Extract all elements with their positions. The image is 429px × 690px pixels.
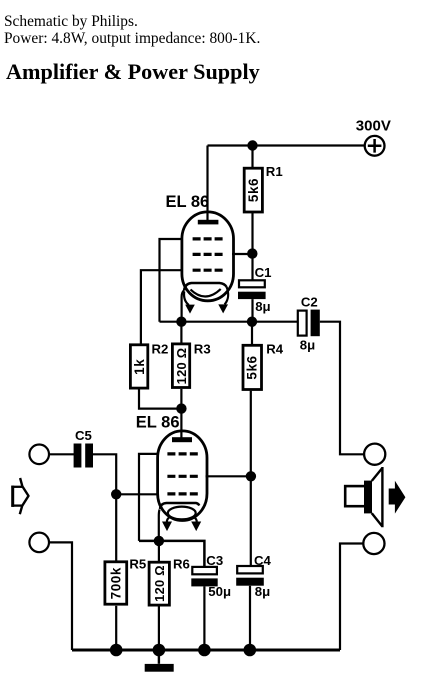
tube V2 grid g3 bbox=[167, 452, 197, 455]
node ground R5 bbox=[110, 644, 123, 657]
wire R1 to C1 bbox=[251, 213, 253, 281]
node ground C4 bbox=[244, 644, 257, 657]
svg-text:EL 86: EL 86 bbox=[136, 414, 180, 432]
svg-text:120 Ω: 120 Ω bbox=[152, 565, 167, 602]
tube V2 heater lead right arrow bbox=[191, 517, 201, 531]
tube V1 grid g3 bbox=[193, 237, 223, 240]
wire C2 to output top bbox=[320, 322, 365, 455]
input arrow bbox=[11, 478, 28, 514]
node anode2 junction bbox=[176, 403, 186, 413]
wire C4 bottom lead bbox=[249, 586, 251, 650]
terminal output top bbox=[364, 444, 385, 465]
caption line 1 bbox=[4, 14, 138, 31]
svg-text:5k6: 5k6 bbox=[246, 178, 261, 202]
tube V2 EL86 envelope bbox=[158, 431, 207, 521]
tube V2 grid g2 bbox=[167, 475, 197, 478]
node g2 tube2 junction bbox=[246, 471, 256, 481]
speaker bbox=[345, 467, 382, 527]
wire g2 tube2 lead bbox=[206, 475, 251, 477]
node g2 R1 junction bbox=[247, 248, 257, 258]
svg-text:C3: C3 bbox=[206, 553, 223, 568]
wire g3 tube1 to node rail bbox=[160, 239, 184, 322]
svg-text:8μ: 8μ bbox=[255, 299, 270, 314]
wire R1 top lead bbox=[251, 146, 253, 169]
resistor R1 bbox=[244, 168, 262, 212]
wire R5 bottom lead bbox=[115, 606, 117, 650]
wire R3 bottom lead bbox=[180, 389, 182, 409]
tube V1 grid g2 bbox=[193, 253, 223, 256]
wire g1 tube1 to R2 bbox=[141, 270, 183, 344]
tube V2 anode bbox=[172, 437, 192, 442]
node ground R6 bbox=[153, 644, 166, 657]
tube V1 heater lead right arrow bbox=[218, 287, 228, 313]
wire C1 to node rail bbox=[251, 299, 253, 322]
svg-text:8μ: 8μ bbox=[255, 584, 270, 599]
svg-text:C5: C5 bbox=[75, 428, 92, 443]
wire g3 tube2 detour bbox=[139, 454, 159, 541]
capacitor C2 bbox=[298, 310, 320, 337]
capacitor C5 bbox=[74, 444, 93, 468]
svg-text:5k6: 5k6 bbox=[245, 355, 260, 379]
tube V1 cathode bbox=[184, 283, 227, 291]
svg-text:EL 86: EL 86 bbox=[166, 193, 210, 211]
wire C3 bottom lead bbox=[203, 586, 205, 650]
svg-text:300V: 300V bbox=[356, 118, 391, 135]
wire top rail bbox=[208, 144, 366, 146]
tube V1 heater lead left arrow bbox=[184, 292, 195, 314]
tube V2 heater lead left arrow bbox=[162, 517, 172, 531]
terminal input top bbox=[29, 445, 49, 465]
wire anode2 riser bbox=[180, 409, 182, 439]
tube V1 heater arc bbox=[191, 289, 221, 297]
tube V1 EL86 envelope bbox=[182, 212, 234, 301]
wire g2 tube1 lead bbox=[232, 253, 253, 255]
node g1 tube2 junction bbox=[111, 489, 121, 499]
wire cathode1 drop bbox=[182, 291, 184, 322]
svg-text:R5: R5 bbox=[129, 557, 146, 572]
svg-text:8μ: 8μ bbox=[300, 338, 315, 353]
wire R3 riser bbox=[180, 322, 182, 344]
svg-text:50μ: 50μ bbox=[208, 584, 231, 599]
node ground C3 bbox=[198, 644, 211, 657]
wire g1 tube2 lead bbox=[116, 493, 158, 495]
resistor R6 bbox=[149, 562, 169, 605]
ground symbol bbox=[145, 650, 174, 672]
tube V2 grid g1 bbox=[167, 492, 197, 495]
wire ground rail bbox=[72, 649, 340, 652]
terminal input bottom bbox=[29, 533, 49, 553]
svg-text:R2: R2 bbox=[152, 341, 169, 356]
svg-text:C2: C2 bbox=[301, 294, 318, 309]
wire R2 bottom to anode2 node bbox=[139, 390, 181, 409]
node cathode2 R6 junction bbox=[154, 536, 164, 546]
resistor R4 bbox=[243, 345, 262, 389]
wire node rail horizontal bbox=[160, 321, 298, 323]
wire R4 top lead bbox=[251, 322, 253, 345]
wire input top to C5 bbox=[49, 453, 74, 455]
wire input bottom to ground rail bbox=[49, 542, 72, 650]
speaker sound arrow bbox=[389, 481, 406, 514]
wire C5 to grid column bbox=[93, 454, 116, 562]
svg-text:700k: 700k bbox=[109, 567, 124, 599]
node C1 R4 junction bbox=[247, 317, 257, 327]
tube V1 anode bbox=[198, 220, 219, 225]
terminal output bottom bbox=[363, 533, 384, 554]
capacitor C3 bbox=[191, 567, 217, 587]
resistor R5 bbox=[105, 562, 127, 604]
svg-text:R1: R1 bbox=[266, 164, 283, 179]
terminal +300V bbox=[365, 136, 385, 156]
caption line 2 bbox=[4, 31, 260, 48]
resistor R2 bbox=[130, 345, 147, 388]
svg-text:1k: 1k bbox=[132, 359, 147, 375]
tube V1 grid g1 bbox=[193, 269, 223, 272]
tube V2 cathode bbox=[160, 503, 199, 509]
wire R6 bottom lead bbox=[158, 606, 160, 650]
svg-text:R4: R4 bbox=[266, 341, 284, 356]
wire cathode2 drop bbox=[158, 510, 161, 541]
node top rail junction bbox=[247, 140, 257, 150]
node cathode1 R3 junction bbox=[176, 317, 186, 327]
wire cathode rail to C3 bbox=[139, 541, 204, 567]
wire anode1 riser bbox=[206, 146, 208, 222]
capacitor C1 bbox=[238, 280, 266, 299]
capacitor C4 bbox=[236, 566, 264, 586]
tube V2 heater arc bbox=[168, 507, 196, 520]
wire output bottom to ground rail bbox=[340, 544, 363, 651]
svg-text:C1: C1 bbox=[255, 265, 272, 280]
svg-text:120 Ω: 120 Ω bbox=[174, 348, 189, 385]
svg-text:R6: R6 bbox=[173, 557, 190, 572]
wire R6 riser bbox=[158, 541, 160, 563]
resistor R3 bbox=[172, 344, 189, 388]
title bbox=[6, 59, 260, 85]
svg-text:R3: R3 bbox=[194, 341, 211, 356]
wire R4 to C4 column bbox=[250, 391, 252, 567]
